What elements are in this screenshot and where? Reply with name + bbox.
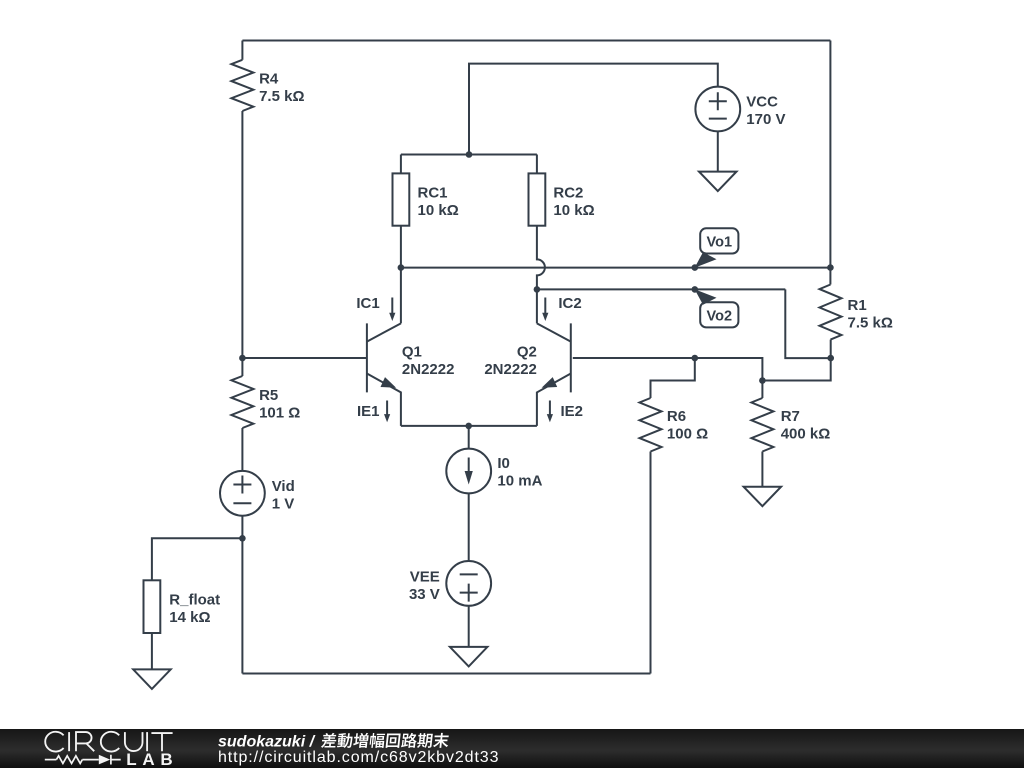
wire R7 bottom stem to ground xyxy=(761,452,763,487)
ground below VCC xyxy=(699,172,737,192)
wire emitter node down to I0 xyxy=(468,426,470,448)
wire VCC branch: RC junction up and over to VCC top xyxy=(469,64,718,155)
svg-text:Vo2: Vo2 xyxy=(707,309,733,325)
wire R4 top lead xyxy=(241,41,243,60)
wire Vo2 rail from Q2 collector node xyxy=(537,288,785,290)
svg-text:Vo1: Vo1 xyxy=(707,235,733,251)
transistor Q1 xyxy=(367,268,401,426)
node VCC/RC rail junction xyxy=(466,151,473,158)
wire top rail from R4 to right rail xyxy=(242,40,830,42)
I0 arrow xyxy=(465,458,473,485)
voltage source Vid xyxy=(220,471,265,516)
svg-text:RC210 kΩ: RC210 kΩ xyxy=(553,185,594,220)
wire R1 leads xyxy=(829,268,831,359)
wire Vid bottom to junction and down to bottom rail xyxy=(241,516,243,674)
wire Q2 base rail to corner xyxy=(573,358,763,381)
current source I0 xyxy=(446,449,491,494)
wire RC1 top lead xyxy=(400,155,402,174)
svg-text:RC110 kΩ: RC110 kΩ xyxy=(418,185,459,220)
VEE plus xyxy=(460,584,478,602)
node Vo2 flag junction xyxy=(692,286,699,293)
VCC plus xyxy=(709,92,727,110)
wire Vo1 rail xyxy=(401,267,831,269)
svg-text:Q12N2222: Q12N2222 xyxy=(402,344,455,379)
svg-text:VCC170 V: VCC170 V xyxy=(746,93,785,128)
node base-rail/R6 junction xyxy=(692,355,699,362)
IE2 current arrow xyxy=(547,401,553,423)
ground below R7 xyxy=(744,487,782,507)
ground below VEE xyxy=(450,647,488,667)
wire Q1 base xyxy=(242,357,367,359)
voltage source VEE xyxy=(446,561,491,606)
VCC minus xyxy=(709,118,727,120)
Vid minus xyxy=(233,502,251,504)
svg-text:Q22N2222: Q22N2222 xyxy=(484,344,537,379)
svg-text:LAB: LAB xyxy=(126,750,178,768)
wire R7 top lead xyxy=(761,381,763,399)
voltage source VCC xyxy=(695,87,740,132)
resistor RC2 xyxy=(529,173,546,225)
svg-text:VEE33 V: VEE33 V xyxy=(409,568,440,603)
wire R6 bottom to bottom rail xyxy=(650,452,652,674)
node R1 bottom junction xyxy=(827,355,834,362)
Vid plus xyxy=(233,476,251,494)
node Vo1 flag junction xyxy=(692,264,699,271)
wire right rail down to Vo1 node xyxy=(829,41,831,268)
node RC2/Q2-collector/Vo2 junction xyxy=(534,286,541,293)
resistor R6 xyxy=(640,398,662,452)
node emitter rail junction xyxy=(465,423,472,430)
wire VCC bottom stem to ground xyxy=(717,131,719,171)
wire R_float branch xyxy=(152,538,243,580)
wire R7 node to R1 bottom node xyxy=(762,358,830,380)
resistor R_float xyxy=(144,580,161,633)
svg-text:R5101 Ω: R5101 Ω xyxy=(259,387,300,422)
svg-text:I010 mA: I010 mA xyxy=(497,455,542,490)
svg-text:R7400 kΩ: R7400 kΩ xyxy=(781,408,831,443)
wire bottom rail xyxy=(242,673,650,675)
IC2 current arrow xyxy=(542,298,548,322)
svg-text:R_float14 kΩ: R_float14 kΩ xyxy=(169,591,220,626)
node RC1/Vo1 junction xyxy=(398,264,405,271)
node right-rail/R1 top junction xyxy=(827,264,834,271)
wire RC2 bottom lead with hop over Vo1 rail xyxy=(537,226,545,290)
wire R_float bottom stem to ground xyxy=(151,633,153,669)
wire R4 bottom lead to base node xyxy=(241,111,243,358)
node Vid/R_float junction xyxy=(239,535,246,542)
svg-text:R17.5 kΩ: R17.5 kΩ xyxy=(848,297,893,332)
wire VEE bottom stem to ground xyxy=(468,606,470,647)
CircuitLab logo word CIRCUIT xyxy=(45,732,172,752)
svg-text:R47.5 kΩ: R47.5 kΩ xyxy=(259,71,304,106)
VEE minus xyxy=(460,573,478,575)
wire I0 bottom to VEE top xyxy=(468,494,470,561)
resistor R5 xyxy=(231,376,253,428)
svg-text:http://circuitlab.com/c68v2kbv: http://circuitlab.com/c68v2kbv2dt33 xyxy=(218,749,499,766)
CircuitLab logo schematic line with resistor and diode xyxy=(45,755,121,765)
resistor R1 xyxy=(820,285,842,340)
svg-text:Vid1 V: Vid1 V xyxy=(272,478,295,513)
resistor R4 xyxy=(231,60,253,111)
svg-text:IC1: IC1 xyxy=(356,295,379,312)
transistor Q2 xyxy=(537,289,571,426)
wire Vo2 drop to R1 bottom node xyxy=(785,289,830,358)
IC1 current arrow xyxy=(389,298,395,322)
net flag Vo1 xyxy=(695,228,739,267)
wire R6 branch from base rail node xyxy=(651,358,695,398)
resistor RC1 xyxy=(393,173,410,225)
node R7 top junction xyxy=(759,377,766,384)
net flag Vo2 xyxy=(695,289,739,327)
wire R5 top lead xyxy=(241,358,243,376)
resistor R7 xyxy=(751,398,773,452)
svg-text:IC2: IC2 xyxy=(558,295,581,312)
ground below R_float xyxy=(133,669,171,689)
footer bar xyxy=(0,729,1024,768)
svg-text:IE1: IE1 xyxy=(357,403,380,420)
svg-text:R6100 Ω: R6100 Ω xyxy=(667,408,708,443)
wire emitter rail xyxy=(401,425,537,427)
wire R5 bottom lead to Vid xyxy=(241,428,243,471)
node R4/R5/Q1-base junction xyxy=(239,355,246,362)
wire RC1 bottom lead to Vo1 node xyxy=(400,226,402,268)
wire RC top rail xyxy=(401,154,537,156)
IE1 current arrow xyxy=(384,401,390,423)
svg-text:IE2: IE2 xyxy=(561,403,584,420)
wire RC2 top lead xyxy=(536,155,538,174)
